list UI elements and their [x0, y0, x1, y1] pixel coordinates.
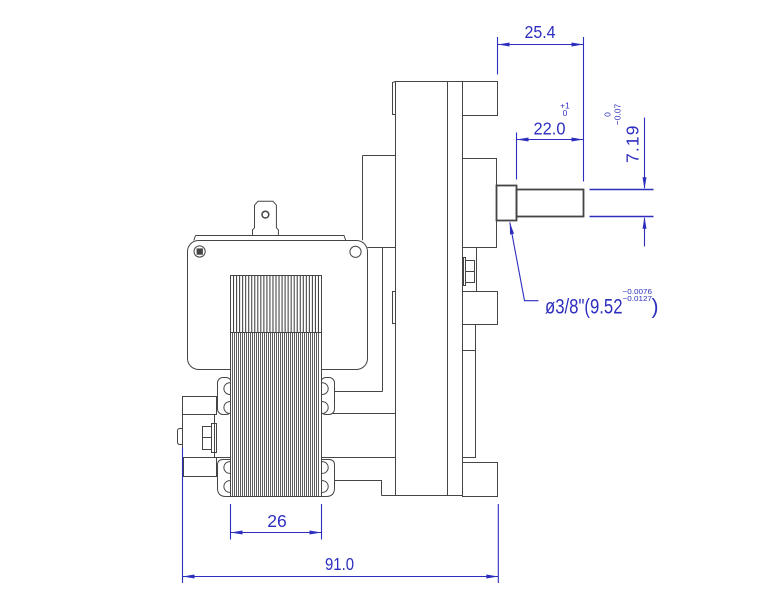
hex screw washer	[464, 258, 466, 286]
screw left square hole	[197, 248, 203, 254]
coil lobe lower-left	[218, 460, 236, 497]
gearbox top-left step	[393, 82, 396, 115]
lamination stack	[231, 276, 322, 497]
bracket band lower	[217, 457, 396, 459]
bearing boss	[463, 159, 497, 248]
hex screw facet	[466, 271, 475, 273]
arrow 91.0 left	[183, 575, 195, 579]
gearbox mid-right tab	[463, 292, 498, 325]
svg-text:22.0: 22.0	[534, 119, 566, 139]
gearbox top-right tab	[463, 82, 498, 116]
gear shaft line	[476, 248, 478, 292]
arrow 7.19 down	[643, 177, 647, 189]
svg-text:−0.07: −0.07	[613, 103, 623, 125]
screw right	[350, 246, 361, 257]
output shaft	[517, 190, 584, 217]
stack outline	[231, 276, 322, 497]
bracket front face	[335, 248, 396, 392]
stack laminations lower	[233, 333, 319, 496]
left bracket mid box	[183, 415, 215, 458]
svg-text:0: 0	[563, 108, 568, 118]
svg-text:26: 26	[267, 511, 287, 531]
dim 7.19 line lower	[644, 218, 646, 247]
top strip	[194, 236, 346, 241]
dim 7.19 object lines	[590, 190, 654, 217]
hex screw body	[466, 261, 475, 283]
dim 25.4 extension lines	[498, 37, 584, 182]
motor end shield plate	[188, 241, 368, 370]
gearbox main plate	[396, 82, 463, 497]
leader line	[510, 222, 539, 300]
narrow strip divider	[463, 350, 476, 352]
dim 91.0 extension lines	[183, 448, 499, 584]
arrow leader	[510, 222, 514, 234]
gearbox bottom-right tab	[463, 463, 498, 497]
shaft collar	[497, 186, 517, 221]
coil lobe upper-right	[316, 378, 334, 415]
left hex nut	[203, 427, 212, 450]
arrow 91.0 right	[486, 575, 498, 579]
dim 25.4 line	[498, 44, 584, 46]
coil lobe upper-left	[218, 378, 236, 415]
svg-text:): )	[652, 296, 659, 319]
arrow 22.0 right	[572, 138, 584, 142]
dim 26 line	[231, 532, 322, 534]
svg-text:−0.0127: −0.0127	[623, 294, 653, 303]
left hex nut facet	[203, 437, 212, 439]
gearbox narrow strip	[463, 325, 476, 458]
stack divider	[231, 332, 322, 334]
arrow 25.4 left	[498, 43, 510, 47]
dim 7.19 line upper	[644, 118, 646, 189]
left nut washer	[212, 424, 217, 453]
svg-text:0: 0	[603, 112, 613, 117]
left cylinder bump	[178, 429, 183, 445]
bracket band upper	[231, 413, 396, 415]
svg-text:7.19: 7.19	[622, 124, 642, 162]
left bracket top box	[183, 397, 217, 415]
arrow 26 left	[231, 531, 243, 535]
stack laminations upper	[234, 276, 319, 332]
screw left	[194, 246, 205, 257]
bracket rear arm flange	[363, 156, 396, 241]
dim 26 extension lines	[231, 504, 322, 540]
gearbox bottom edge	[382, 495, 463, 497]
arrow 25.4 right	[572, 43, 584, 47]
terminal blade	[253, 201, 279, 235]
dim 22.0 line	[517, 139, 584, 141]
bracket foot	[335, 481, 382, 496]
dim 91.0 line	[183, 576, 499, 578]
terminal hole	[262, 211, 269, 218]
svg-text:91.0: 91.0	[325, 554, 354, 574]
svg-text:ø3/8"(9.52: ø3/8"(9.52	[545, 296, 623, 319]
coil lobe lower-right	[316, 460, 334, 497]
arrow 7.19 up	[643, 217, 647, 229]
arrow 26 right	[310, 531, 322, 535]
left bracket bottom box	[184, 458, 217, 477]
dim 22.0 extension line	[516, 133, 518, 180]
gearbox left mid tab	[393, 292, 396, 324]
arrow 22.0 left	[517, 138, 529, 142]
svg-text:25.4: 25.4	[525, 22, 556, 42]
